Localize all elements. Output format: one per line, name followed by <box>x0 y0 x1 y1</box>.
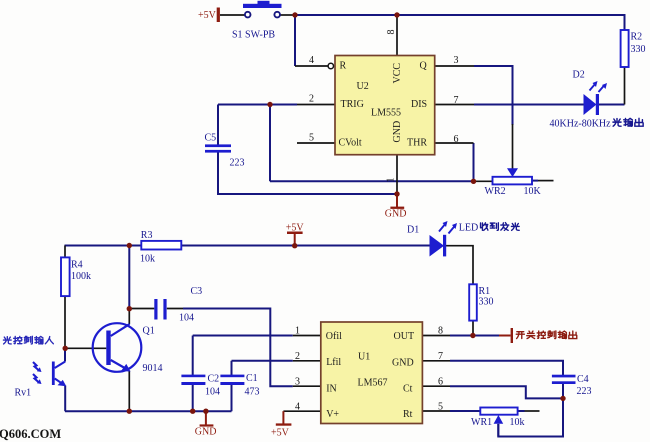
svg-text:C4: C4 <box>577 374 589 385</box>
svg-text:GND: GND <box>385 209 407 220</box>
svg-text:Ofil: Ofil <box>326 331 342 342</box>
svg-text:WR1: WR1 <box>471 417 492 428</box>
svg-text:4: 4 <box>295 402 300 413</box>
svg-text:+5V: +5V <box>198 10 217 21</box>
svg-text:104: 104 <box>205 387 220 398</box>
svg-text:GND: GND <box>392 358 414 369</box>
svg-text:Q606.COM: Q606.COM <box>0 427 61 441</box>
svg-text:100k: 100k <box>71 271 91 282</box>
svg-text:473: 473 <box>245 387 260 398</box>
svg-text:3: 3 <box>295 376 300 387</box>
svg-text:THR: THR <box>407 138 427 149</box>
svg-text:+5V: +5V <box>271 428 290 439</box>
svg-text:CVolt: CVolt <box>339 138 362 149</box>
svg-text:3: 3 <box>454 55 459 66</box>
svg-text:40KHz-80KHz: 40KHz-80KHz <box>550 119 612 130</box>
svg-text:+5V: +5V <box>286 223 305 234</box>
svg-text:8: 8 <box>438 326 443 337</box>
svg-text:R1: R1 <box>479 286 491 297</box>
svg-text:223: 223 <box>577 386 592 397</box>
svg-text:IN: IN <box>326 384 337 395</box>
svg-text:10k: 10k <box>140 254 155 265</box>
svg-text:R4: R4 <box>71 260 83 271</box>
svg-text:LM555: LM555 <box>371 108 401 119</box>
svg-text:C2: C2 <box>208 374 220 385</box>
svg-text:C1: C1 <box>246 373 258 384</box>
svg-text:VCC: VCC <box>392 63 403 84</box>
svg-text:D1: D1 <box>407 225 419 236</box>
svg-text:C3: C3 <box>191 286 203 297</box>
svg-text:LM567: LM567 <box>358 378 388 389</box>
svg-text:10k: 10k <box>510 417 525 428</box>
svg-text:5: 5 <box>438 402 443 413</box>
svg-text:U1: U1 <box>358 352 370 363</box>
svg-text:DIS: DIS <box>411 99 427 110</box>
svg-text:2: 2 <box>309 94 314 105</box>
svg-text:TRIG: TRIG <box>341 99 364 110</box>
svg-text:Rt: Rt <box>403 409 413 420</box>
svg-text:1: 1 <box>295 326 300 337</box>
svg-text:6: 6 <box>454 134 459 145</box>
svg-text:U2: U2 <box>357 81 369 92</box>
svg-text:LED: LED <box>459 223 478 234</box>
svg-text:7: 7 <box>454 95 459 106</box>
svg-text:OUT: OUT <box>394 331 415 342</box>
svg-text:R2: R2 <box>631 32 643 43</box>
svg-text:10K: 10K <box>524 186 542 197</box>
svg-text:330: 330 <box>631 44 646 55</box>
svg-text:1: 1 <box>386 178 397 183</box>
svg-text:6: 6 <box>438 376 443 387</box>
svg-text:Rv1: Rv1 <box>15 388 32 399</box>
svg-text:223: 223 <box>230 158 245 169</box>
svg-text:104: 104 <box>179 313 194 324</box>
svg-text:R3: R3 <box>141 230 153 241</box>
svg-text:Lfil: Lfil <box>326 357 341 368</box>
svg-text:R: R <box>340 61 347 72</box>
svg-text:Q1: Q1 <box>143 326 155 337</box>
svg-text:4: 4 <box>309 55 314 66</box>
svg-text:D2: D2 <box>573 70 585 81</box>
svg-text:9014: 9014 <box>143 363 163 374</box>
svg-text:2: 2 <box>295 351 300 362</box>
svg-text:7: 7 <box>438 351 443 362</box>
svg-text:GND: GND <box>195 426 217 437</box>
svg-text:V+: V+ <box>326 409 339 420</box>
svg-text:GND: GND <box>392 121 403 143</box>
svg-text:S1 SW-PB: S1 SW-PB <box>232 30 275 41</box>
svg-text:330: 330 <box>479 297 494 308</box>
svg-text:8: 8 <box>386 30 397 35</box>
svg-text:5: 5 <box>309 133 314 144</box>
svg-text:Ct: Ct <box>403 384 413 395</box>
svg-text:Q: Q <box>420 61 428 72</box>
svg-text:C5: C5 <box>205 133 217 144</box>
svg-text:WR2: WR2 <box>485 186 506 197</box>
